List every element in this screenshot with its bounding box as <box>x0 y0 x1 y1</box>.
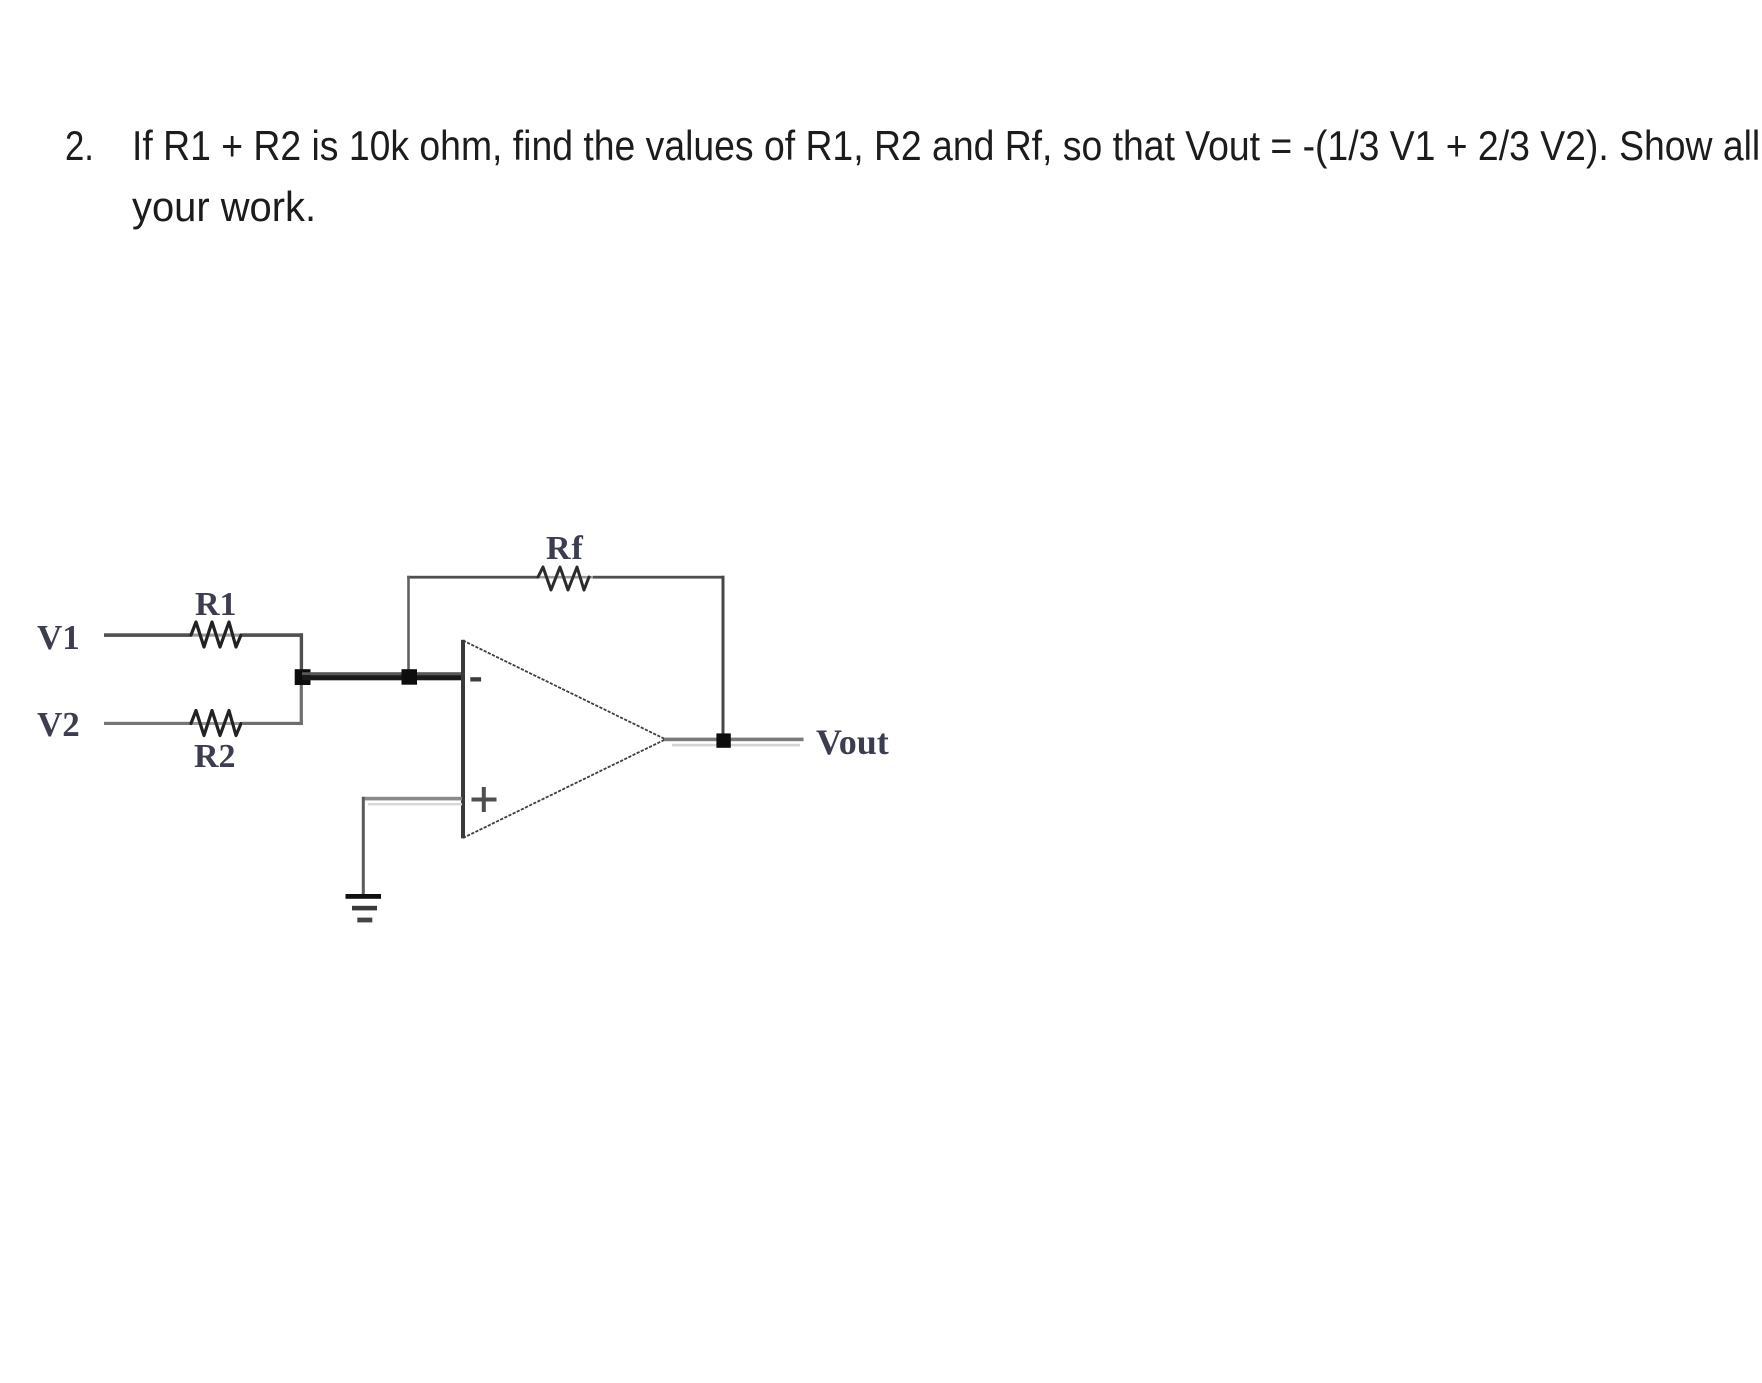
problem number <box>65 115 94 176</box>
wire non-inverting input horizontal <box>362 797 462 806</box>
svg-text:Rf: Rf <box>546 530 584 567</box>
svg-text:V2: V2 <box>37 705 80 744</box>
problem text line 1 <box>132 115 1760 176</box>
wire feedback top left segment <box>407 576 538 579</box>
node C junction (output) <box>716 733 730 747</box>
svg-text:Vout: Vout <box>816 722 889 762</box>
op-amp U1 <box>461 640 666 839</box>
resistor Rf <box>538 567 593 590</box>
op-amp plus pin label <box>472 787 497 812</box>
node B junction (feedback tap) <box>402 669 418 685</box>
wire corner down to node A <box>300 633 303 677</box>
label R2 <box>194 738 236 775</box>
wire corner up to node A <box>300 680 303 725</box>
op-amp minus pin label <box>470 677 481 681</box>
problem text line 2 <box>132 176 316 237</box>
resistor R2 <box>191 711 242 736</box>
wire V1 input <box>104 633 192 637</box>
resistor R1 <box>191 622 242 647</box>
wire feedback top right segment <box>593 576 725 579</box>
ground <box>346 894 382 922</box>
wire output <box>664 738 804 747</box>
wire feedback right vertical <box>722 576 725 736</box>
wire R1 to corner <box>242 633 303 637</box>
label Vout <box>816 722 889 762</box>
svg-text:R2: R2 <box>194 738 236 775</box>
wire V2 input <box>104 722 192 725</box>
node A junction <box>295 669 311 685</box>
wire feedback left vertical <box>407 576 410 672</box>
svg-text:V1: V1 <box>37 618 80 657</box>
wire ground vertical <box>362 797 365 895</box>
label R1 <box>195 586 237 623</box>
svg-text:R1: R1 <box>195 586 237 623</box>
wire R2 to corner <box>242 722 303 725</box>
label V1 <box>37 618 80 657</box>
label V2 <box>37 705 80 744</box>
wire node A to op-amp inverting input <box>302 672 462 680</box>
label Rf <box>546 530 584 567</box>
